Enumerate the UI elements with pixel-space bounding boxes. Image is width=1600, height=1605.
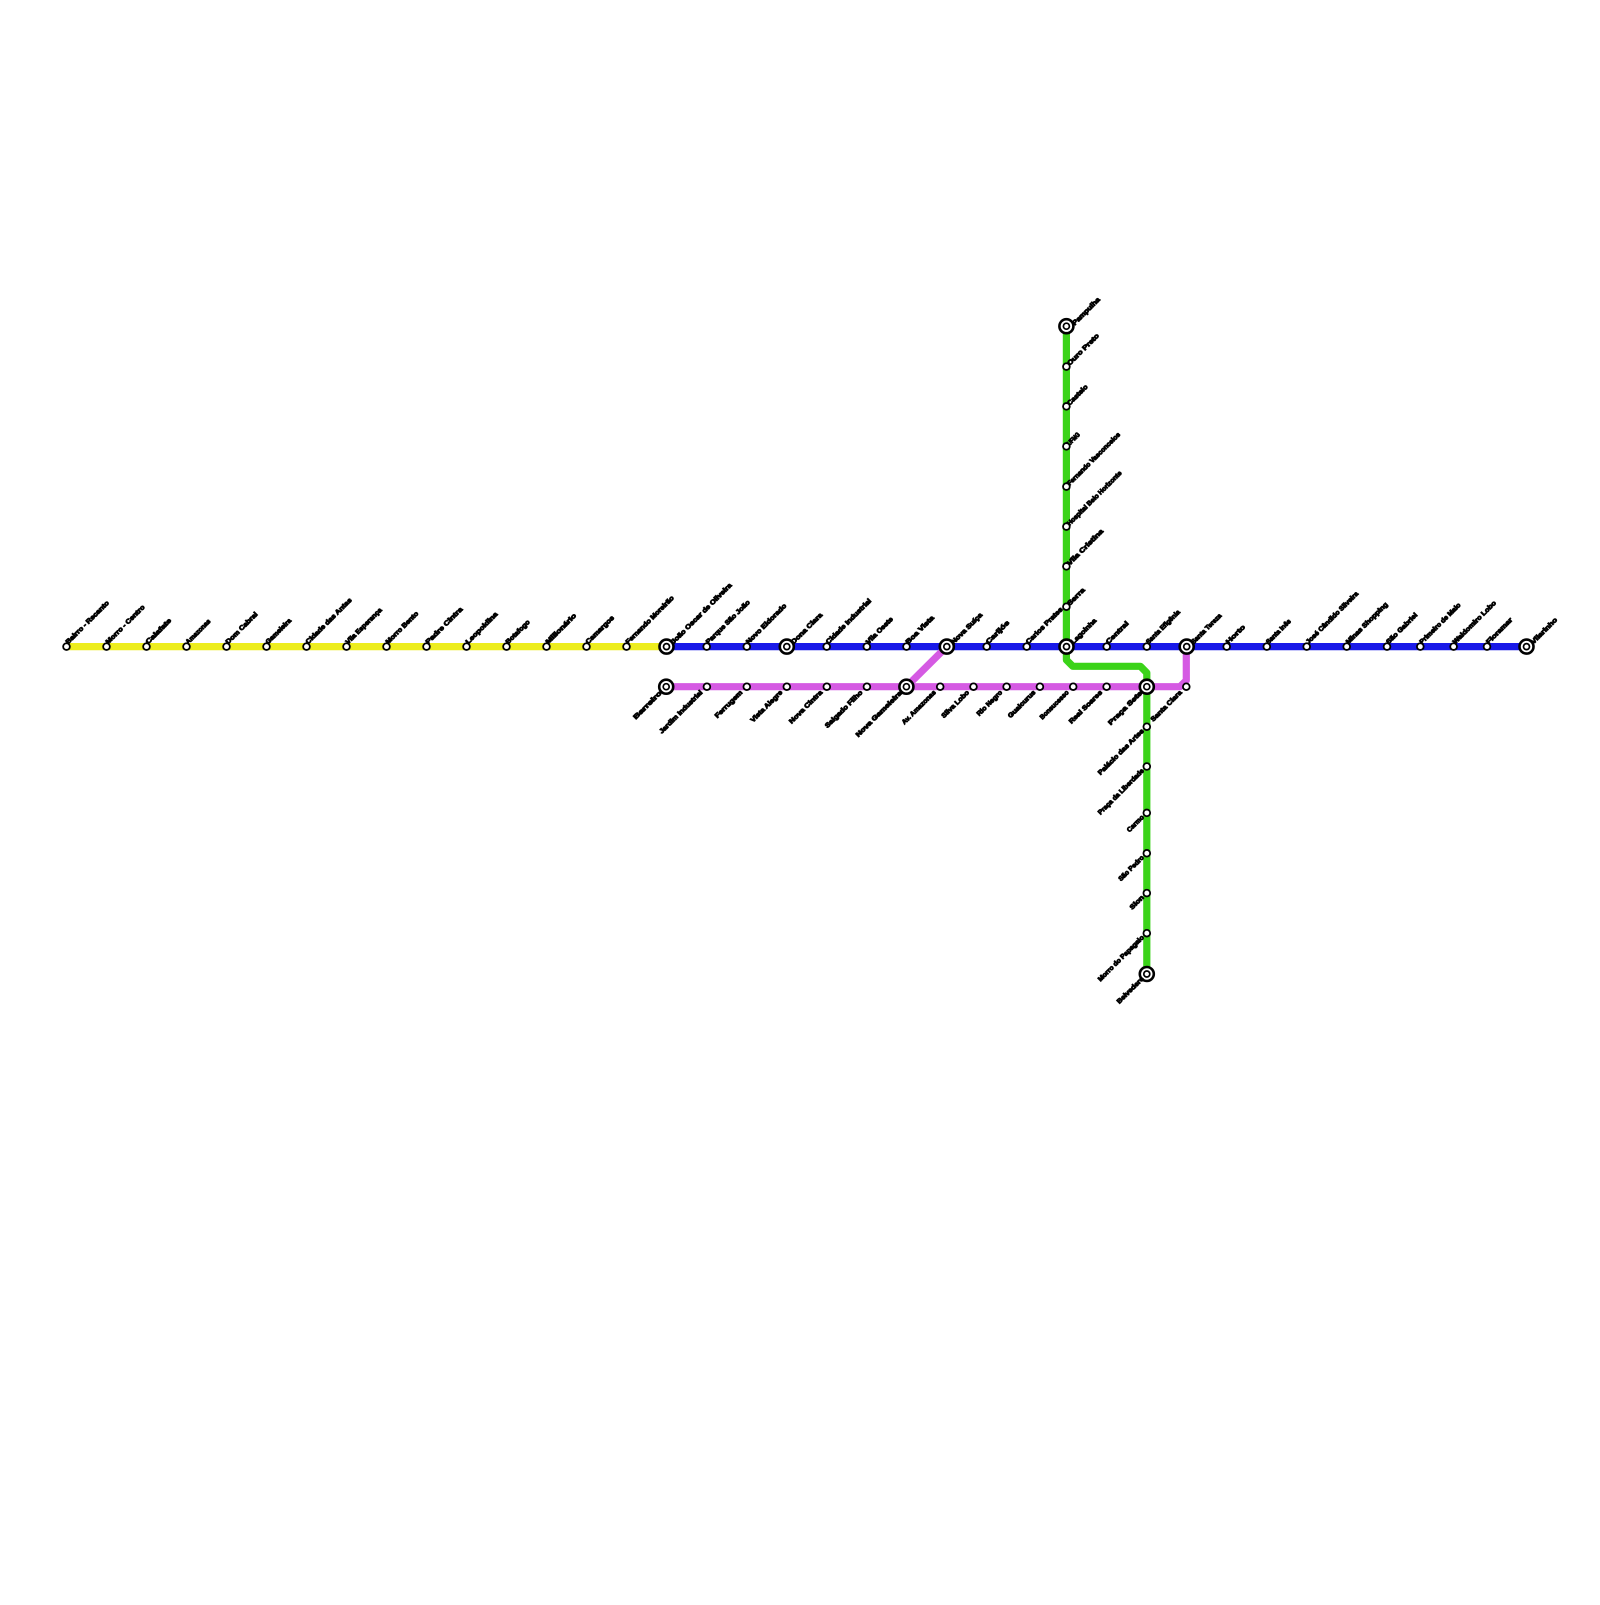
station Ouro Preto — [1063, 333, 1101, 370]
station Horto — [1223, 624, 1247, 650]
station Salgado Filho — [824, 683, 870, 729]
station Morro Bento — [383, 610, 420, 649]
station Central — [1103, 620, 1130, 650]
station Real Soares — [1068, 683, 1110, 725]
station Boa Vista — [903, 614, 936, 650]
station Praça da Liberdade — [1097, 763, 1150, 816]
station Novo Eldorado — [743, 603, 788, 650]
station Morro do Papagaio — [1097, 930, 1150, 983]
station Santa Tereza — [1180, 612, 1224, 653]
station Cidade Industrial — [823, 598, 873, 650]
station Belvedere — [1116, 967, 1154, 1005]
station Jardim Industrial — [658, 683, 710, 735]
station Amazonas — [183, 618, 212, 650]
magenta line branch to blue — [906, 647, 946, 687]
station Carlos Prates — [1023, 606, 1064, 650]
station Castelo — [1063, 384, 1089, 410]
station Av. Amazonas — [901, 683, 944, 726]
station Dom Cabral — [223, 611, 259, 650]
station Santa Clara — [1150, 683, 1190, 723]
station Santa Efigênia — [1143, 609, 1182, 650]
station Pampulha — [1059, 296, 1102, 333]
station Calafate — [143, 617, 173, 650]
station Vila Esperança — [343, 607, 384, 650]
yellow line (Linha Amarela) — [67, 643, 667, 650]
station Nova Gameleira — [855, 680, 914, 739]
station Minas Shopping — [1343, 601, 1389, 650]
station João Oscar de Oliveira — [660, 582, 734, 654]
station Bairro - Recanto — [63, 600, 111, 650]
station Dona Clara — [780, 612, 825, 654]
station Santa Inês — [1263, 618, 1292, 650]
station Camargos — [583, 614, 616, 650]
station Barreiro — [632, 680, 673, 721]
station Botafogo — [503, 619, 531, 650]
blue line (Linha Azul) — [667, 643, 1527, 650]
station Gameleira — [263, 617, 293, 650]
station Cidade das Antas — [303, 597, 354, 650]
station São Gabriel — [1384, 612, 1420, 650]
station Hospital Belo Horizonte — [1063, 470, 1124, 530]
station Lagoinha — [1060, 617, 1099, 653]
station UFMG — [1063, 432, 1082, 450]
station Carmo — [1126, 810, 1150, 834]
station Vila Cristina — [1063, 528, 1105, 570]
station Serra — [1063, 587, 1087, 610]
station Vilarinho — [1520, 617, 1559, 654]
station Milionário — [543, 613, 578, 650]
station Fernando Moreirão — [623, 595, 676, 650]
station Silva Lobo — [941, 683, 977, 719]
station Leopoldina — [463, 611, 500, 650]
station Morro - Centro — [103, 604, 146, 650]
station Carijós — [983, 619, 1011, 650]
station São Pedro — [1117, 850, 1150, 883]
station Parque São João — [703, 599, 751, 650]
station Waldomiro Lobo — [1450, 600, 1498, 650]
station Rio Negro — [976, 683, 1010, 717]
station Vila Oeste — [863, 616, 895, 650]
station Ferrugem — [714, 683, 750, 719]
station Floramar — [1484, 616, 1515, 649]
station Padre Cintra — [423, 606, 464, 650]
station Nova Suíça — [940, 612, 985, 654]
station Bonsucesso — [1039, 683, 1077, 721]
station Primeiro de Maio — [1417, 602, 1462, 650]
station Nova Cintra — [788, 683, 830, 725]
station Palácio das Artes — [1097, 723, 1150, 776]
station Vista Alegre — [750, 683, 791, 724]
magenta line (Linha Lilás) main — [666, 647, 1186, 687]
station José Cândido Silveira — [1303, 590, 1360, 650]
station Praça Sete — [1107, 680, 1154, 727]
station Sion — [1129, 890, 1150, 911]
green line (Linha Verde) — [1066, 326, 1146, 974]
station Guaicurus — [1007, 683, 1043, 719]
station Fernando Vasconcelos — [1063, 431, 1122, 490]
